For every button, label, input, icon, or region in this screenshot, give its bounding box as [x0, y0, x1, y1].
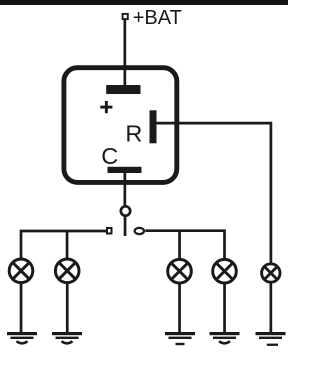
switch pivot balloon — [121, 206, 130, 215]
terminal +BAT — [123, 14, 128, 19]
svg-text:C: C — [101, 143, 118, 169]
lamp L2 — [55, 259, 79, 283]
svg-text:+BAT: +BAT — [133, 7, 182, 29]
lamp L5 — [262, 264, 280, 282]
ground G5 — [256, 332, 286, 346]
lamp L4 — [213, 259, 237, 283]
ground G1 — [7, 332, 37, 343]
wire L3 to ground — [178, 283, 181, 333]
ground G3 — [165, 332, 195, 345]
wire L1 to ground — [20, 282, 23, 332]
wire L5 to ground — [270, 282, 273, 332]
lamp L3 — [168, 259, 192, 283]
battery plate bar (+) — [106, 85, 140, 94]
wire +BAT to relay box — [124, 19, 127, 86]
svg-text:R: R — [125, 121, 142, 147]
wire R to right branch — [157, 123, 271, 263]
wire drop to lamp L2 — [66, 231, 69, 259]
relay box U1 — [64, 68, 177, 183]
wire left feed — [21, 231, 106, 259]
resistor plate bar R — [150, 110, 157, 143]
wire drop to lamp L3 — [178, 231, 181, 259]
switch arm — [124, 216, 127, 236]
ground G2 — [52, 332, 82, 343]
wire L4 to ground — [223, 283, 226, 333]
capacitor plate bar C — [108, 167, 142, 173]
contact ellipse right — [135, 228, 144, 234]
wire right feed — [145, 231, 224, 259]
label + — [100, 101, 112, 113]
ground G4 — [210, 332, 240, 343]
wire L2 to ground — [66, 282, 69, 332]
lamp L1 — [9, 259, 33, 283]
wire C to switch — [124, 173, 127, 206]
contact square left — [107, 228, 112, 234]
